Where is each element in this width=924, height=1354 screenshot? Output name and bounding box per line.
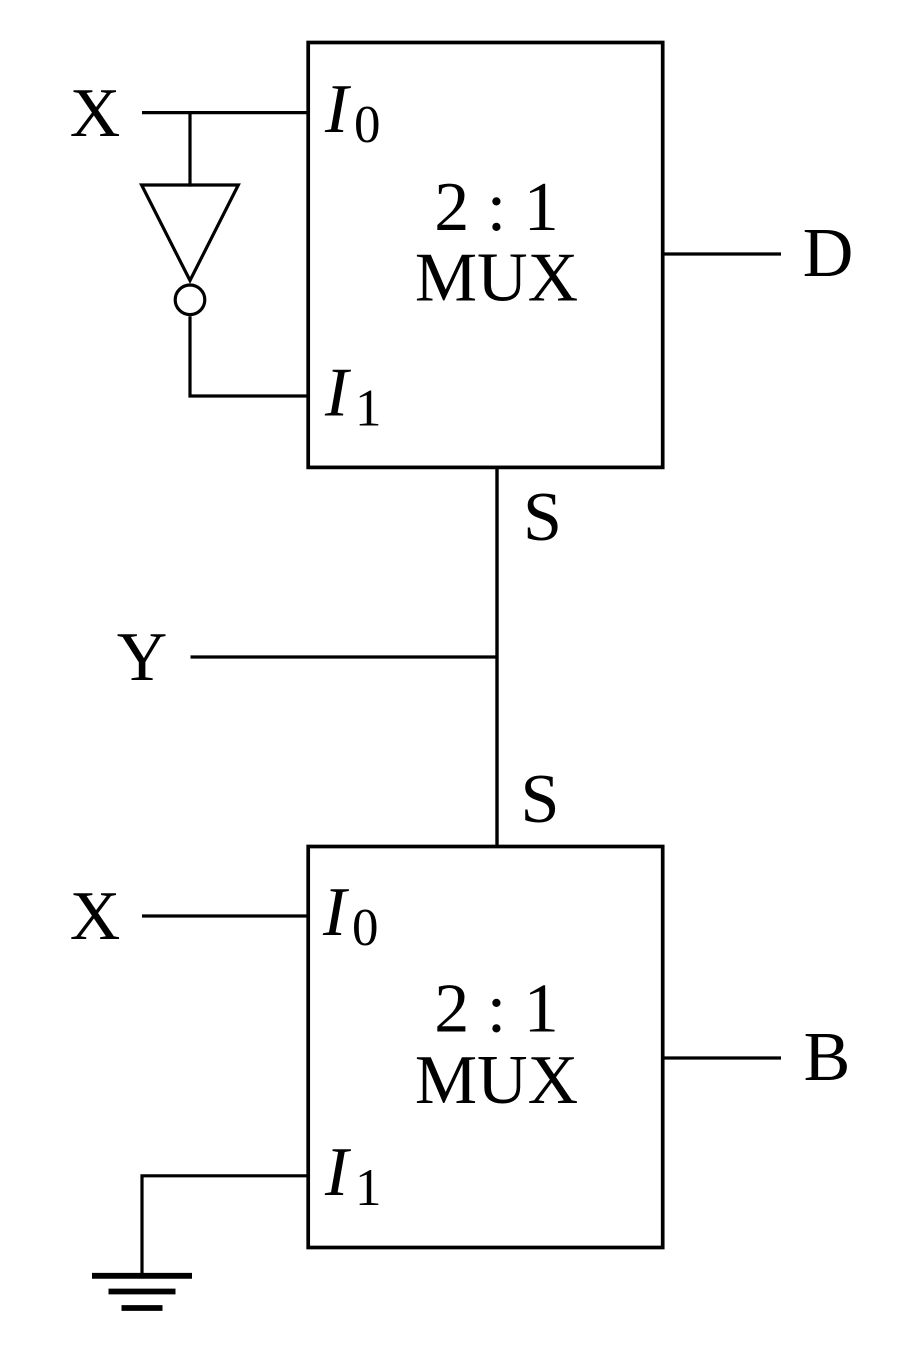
svg-text:S: S: [521, 761, 560, 838]
svg-text:S: S: [523, 479, 562, 556]
svg-text:D: D: [803, 215, 854, 292]
svg-text:Y: Y: [117, 619, 168, 696]
svg-text:I: I: [322, 874, 350, 951]
svg-text:2 : 1: 2 : 1: [434, 169, 558, 246]
svg-text:B: B: [804, 1019, 851, 1096]
wire branch down to inverter input: [188, 113, 191, 187]
svg-text:0: 0: [354, 96, 381, 154]
svg-text:I: I: [324, 354, 352, 431]
pin label I1 (U2): [324, 1134, 382, 1217]
wire U2 output: [663, 1056, 781, 1059]
pin label I1 (U1): [324, 354, 382, 437]
pin label I0 (U2): [322, 874, 379, 957]
svg-text:1: 1: [355, 1159, 382, 1217]
mux U2 box (bottom 2:1 MUX): [308, 847, 663, 1248]
svg-text:1: 1: [355, 379, 382, 437]
wire Y to select line: [191, 655, 498, 658]
wire X to I0 (U2): [142, 914, 308, 917]
pin label I0 (U1): [324, 71, 381, 154]
svg-text:0: 0: [352, 899, 379, 957]
svg-text:I: I: [324, 1134, 352, 1211]
ground: [92, 1276, 192, 1308]
wire I1 (U2) to ground: [142, 1176, 308, 1276]
inverter bubble: [175, 285, 205, 315]
wire inverter output to I1 (U1): [190, 316, 308, 396]
wire X to I0 (U1): [142, 111, 308, 114]
inverter triangle: [142, 185, 239, 281]
wire U1 output: [663, 252, 781, 255]
wire select line S (U1 bottom to U2 top): [495, 467, 498, 846]
svg-text:MUX: MUX: [415, 1042, 578, 1119]
mux U1 box (top 2:1 MUX): [308, 43, 663, 468]
svg-text:I: I: [324, 71, 352, 148]
svg-text:MUX: MUX: [415, 240, 578, 317]
svg-text:2 : 1: 2 : 1: [434, 970, 558, 1047]
svg-text:X: X: [70, 75, 121, 152]
svg-text:X: X: [70, 878, 121, 955]
